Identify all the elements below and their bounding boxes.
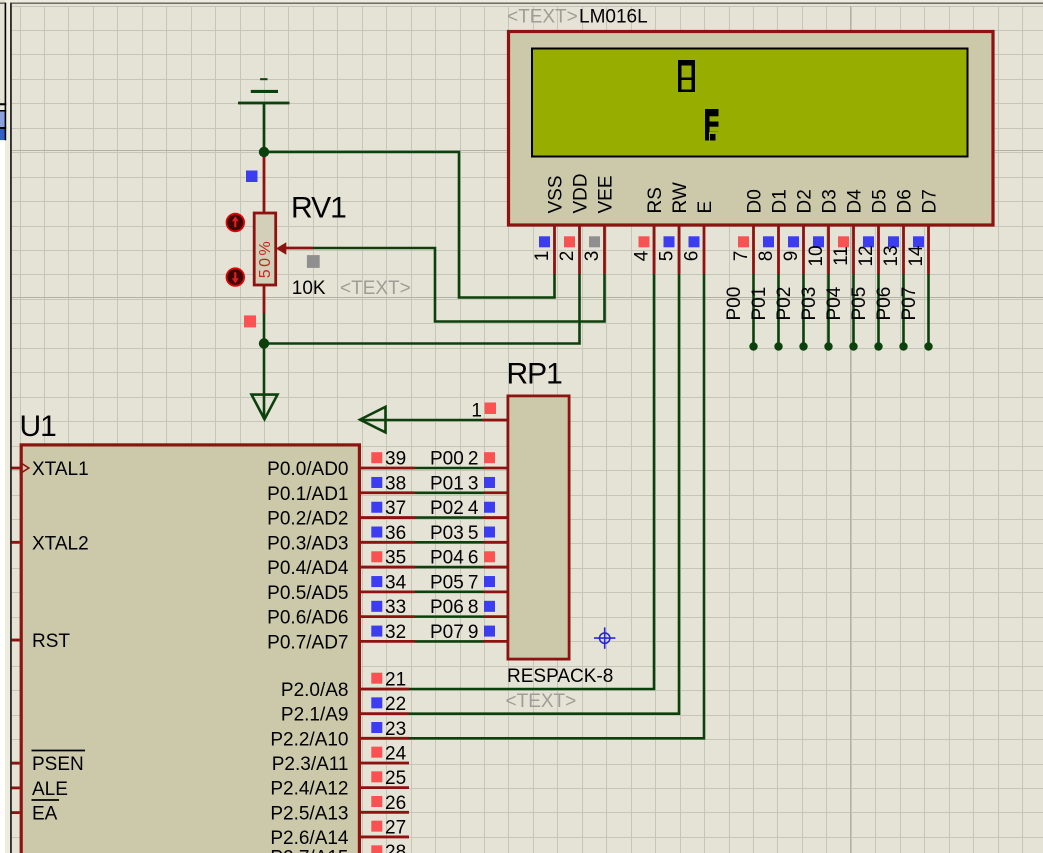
junction node at RV1 bottom	[259, 338, 269, 348]
ground symbol	[238, 78, 290, 104]
svg-text:1: 1	[471, 401, 482, 422]
svg-text:P0.6/AD6: P0.6/AD6	[267, 608, 348, 629]
wire: RP1 pin 1 to input terminal arrow	[361, 419, 483, 422]
svg-text:6: 6	[682, 251, 703, 262]
svg-text:P00: P00	[430, 449, 464, 470]
svg-text:24: 24	[385, 743, 407, 764]
LCD screen	[532, 49, 968, 157]
RV1 top pin state square (blue)	[246, 171, 258, 183]
U1 pin 38 (P0.1/AD1) with wire net P01 to RP1 pin 3	[267, 473, 506, 505]
svg-text:D6: D6	[895, 189, 916, 213]
svg-text:21: 21	[385, 670, 406, 691]
RV1 wiper arrow and stub	[276, 242, 313, 254]
LCD pin 14 (D7) stub, state square, number, name	[906, 189, 941, 274]
svg-text:3: 3	[582, 251, 603, 262]
svg-text:VSS: VSS	[546, 175, 567, 213]
LCD block character 1	[678, 60, 695, 92]
svg-text:6: 6	[468, 548, 479, 569]
LCD pin 11 (D4) stub, state square, number, name	[831, 189, 866, 274]
svg-text:4: 4	[468, 498, 479, 519]
svg-text:25: 25	[385, 768, 406, 789]
svg-text:34: 34	[385, 572, 407, 593]
svg-text:9: 9	[468, 622, 479, 643]
svg-text:D5: D5	[870, 189, 891, 213]
resistor pack RP1 body	[508, 396, 569, 659]
svg-text:33: 33	[385, 597, 406, 618]
RV1 top pin stub	[263, 157, 266, 214]
svg-text:27: 27	[385, 817, 406, 838]
svg-text:P2.6/A14: P2.6/A14	[270, 828, 349, 849]
svg-text:35: 35	[385, 548, 406, 569]
microcontroller U1 body	[21, 445, 359, 853]
U1 pin 25 (P2.4/A12)	[270, 768, 409, 800]
LCD block character 2	[705, 109, 719, 141]
svg-text:8: 8	[756, 251, 777, 262]
svg-text:36: 36	[385, 523, 406, 544]
U1 pin 32 (P0.7/AD7) with wire net P07 to RP1 pin 9	[267, 622, 506, 654]
svg-text:P0.5/AD5: P0.5/AD5	[267, 583, 348, 604]
svg-text:4: 4	[632, 250, 653, 261]
wire net P00: LCD pin 7 down to terminal dot	[724, 274, 758, 351]
svg-text:EA: EA	[32, 804, 58, 825]
left panel borders (black)	[5, 3, 7, 106]
svg-text:P03: P03	[430, 523, 464, 544]
svg-text:D0: D0	[745, 189, 766, 213]
U1 pin 22 (P2.1/A9)	[281, 274, 679, 726]
U1 pin 35 (P0.4/AD4) with wire net P04 to RP1 pin 6	[267, 548, 506, 580]
U1 pin 27 (P2.6/A14)	[270, 817, 409, 849]
RV1 decrement button	[227, 268, 245, 286]
svg-text:P07: P07	[430, 622, 464, 643]
origin marker (blue crosshair)	[594, 627, 615, 648]
svg-text:RST: RST	[32, 631, 70, 652]
svg-text:XTAL1: XTAL1	[32, 459, 89, 480]
svg-text:23: 23	[385, 719, 406, 740]
svg-text:P02: P02	[430, 498, 464, 519]
svg-text:14: 14	[906, 245, 927, 267]
wire net P07: LCD pin 14 down to terminal dot	[899, 274, 933, 351]
svg-text:XTAL2: XTAL2	[32, 533, 89, 554]
svg-text:D1: D1	[770, 189, 791, 213]
svg-text:13: 13	[881, 245, 902, 266]
svg-text:P01: P01	[749, 287, 770, 321]
svg-text:12: 12	[856, 245, 877, 266]
svg-text:P06: P06	[874, 287, 895, 321]
svg-text:E: E	[695, 201, 716, 214]
svg-text:7: 7	[468, 572, 479, 593]
svg-text:P07: P07	[899, 287, 920, 321]
wire: junction to ground terminal arrow	[263, 344, 266, 420]
wire: RV1 bottom to junction	[263, 314, 266, 344]
U1 pin 24 (P2.3/A11)	[272, 743, 409, 775]
LCD pin 13 (D6) stub, state square, number, name	[881, 189, 916, 274]
RP1 pin 1 stub, number, square	[471, 401, 506, 422]
svg-text:P01: P01	[430, 473, 464, 494]
LCD pin 9 (D2) stub, state square, number, name	[781, 189, 816, 274]
svg-text:ALE: ALE	[32, 779, 68, 800]
ground terminal arrow (down)	[252, 395, 278, 420]
svg-text:P0.1/AD1: P0.1/AD1	[267, 484, 348, 505]
wire net P05: LCD pin 12 down to terminal dot	[849, 274, 883, 351]
svg-text:50%: 50%	[257, 239, 274, 279]
LCD pin 7 (D0) stub, state square, number, name	[731, 189, 766, 274]
left scrollbar light blue	[0, 112, 5, 128]
svg-text:2: 2	[468, 449, 479, 470]
U1 left pin XTAL1	[12, 459, 89, 480]
U1 left pin EA	[12, 800, 59, 825]
svg-text:P00: P00	[724, 287, 745, 321]
svg-text:U1: U1	[20, 410, 57, 443]
LCD pin 8 (D1) stub, state square, number, name	[756, 189, 791, 274]
svg-text:38: 38	[385, 473, 406, 494]
svg-text:PSEN: PSEN	[32, 754, 84, 775]
svg-text:D2: D2	[795, 189, 816, 213]
svg-text:P0.2/AD2: P0.2/AD2	[267, 509, 348, 530]
wire net P06: LCD pin 13 down to terminal dot	[874, 274, 908, 351]
potentiometer RV1 body	[254, 213, 276, 285]
svg-text:P2.1/A9: P2.1/A9	[281, 705, 349, 726]
RV1 increment button	[227, 214, 245, 232]
LCD pin 5 (RW) stub, state square, number, name	[657, 182, 692, 274]
wire net P04: LCD pin 11 down to terminal dot	[824, 274, 858, 351]
U1 pin 28 (P2.7/A15)	[270, 842, 409, 853]
U1 pin 26 (P2.5/A13)	[270, 793, 409, 825]
svg-text:1: 1	[532, 251, 553, 262]
U1 left pin PSEN	[12, 751, 85, 776]
LCD pin 10 (D3) stub, state square, number, name	[806, 189, 841, 274]
junction node at ground/RV1 top	[259, 147, 269, 157]
svg-text:32: 32	[385, 622, 406, 643]
svg-text:9: 9	[781, 251, 802, 262]
wire net P03: LCD pin 10 down to terminal dot	[799, 274, 833, 351]
svg-text:P0.4/AD4: P0.4/AD4	[267, 558, 349, 579]
svg-text:<TEXT>: <TEXT>	[507, 7, 578, 28]
svg-text:2: 2	[557, 251, 578, 262]
RV1 bottom pin state square (red)	[244, 315, 256, 327]
svg-text:37: 37	[385, 498, 406, 519]
svg-text:<TEXT>: <TEXT>	[506, 691, 577, 712]
LCD pin 12 (D5) stub, state square, number, name	[856, 189, 891, 274]
svg-text:LM016L: LM016L	[579, 7, 648, 28]
svg-text:D3: D3	[820, 189, 841, 213]
svg-text:P03: P03	[799, 287, 820, 321]
svg-text:11: 11	[831, 246, 852, 266]
LCD pin 2 (VDD) stub, state square, number, name	[557, 173, 592, 274]
LCD pin 3 (VEE) stub, state square, number, name	[582, 175, 617, 274]
svg-text:P04: P04	[430, 548, 464, 569]
svg-text:VEE: VEE	[596, 175, 617, 213]
svg-text:P0.3/AD3: P0.3/AD3	[267, 533, 348, 554]
svg-text:P05: P05	[430, 572, 464, 593]
U1 pin 36 (P0.3/AD3) with wire net P03 to RP1 pin 5	[267, 523, 506, 555]
svg-text:10K: 10K	[292, 278, 326, 299]
U1 pin 23 (P2.2/A10)	[270, 274, 704, 750]
svg-text:VDD: VDD	[571, 173, 592, 213]
U1 pin 34 (P0.5/AD5) with wire net P05 to RP1 pin 7	[267, 572, 506, 604]
U1 left pin XTAL2	[12, 533, 89, 554]
wire net VDD: junction to LCD pin 2	[264, 274, 580, 344]
RV1 bottom pin stub	[263, 286, 266, 314]
left panel top (beige)	[0, 0, 5, 103]
svg-text:39: 39	[385, 449, 406, 470]
wire net VEE: RV1 wiper to LCD pin 3	[313, 248, 605, 322]
svg-text:P04: P04	[824, 286, 845, 320]
svg-text:5: 5	[468, 523, 479, 544]
svg-text:P2.7/A15: P2.7/A15	[270, 848, 348, 853]
svg-text:P0.7/AD7: P0.7/AD7	[267, 632, 348, 653]
left panel bottom white	[0, 140, 5, 853]
LCD pin 6 (E) stub, state square, number, name	[682, 201, 717, 274]
svg-text:P2.0/A8: P2.0/A8	[281, 680, 349, 701]
svg-text:D4: D4	[845, 189, 866, 214]
svg-text:8: 8	[468, 597, 479, 618]
svg-text:D7: D7	[920, 189, 941, 213]
svg-text:RV1: RV1	[291, 191, 346, 224]
U1 left pin ALE	[12, 779, 68, 800]
U1 pin 21 (P2.0/A8)	[281, 274, 654, 701]
U1 pin 37 (P0.2/AD2) with wire net P02 to RP1 pin 4	[267, 498, 506, 530]
wire: ground to junction	[263, 104, 266, 152]
svg-text:5: 5	[657, 251, 678, 262]
svg-text:<TEXT>: <TEXT>	[340, 278, 411, 299]
svg-text:P2.2/A10: P2.2/A10	[270, 729, 348, 750]
LCD LM016L body	[509, 32, 994, 226]
U1 pin 39 (P0.0/AD0) with wire net P00 to RP1 pin 2	[267, 449, 506, 481]
LCD pin 1 (VSS) stub, state square, number, name	[532, 175, 567, 274]
svg-text:22: 22	[385, 694, 406, 715]
svg-text:3: 3	[468, 473, 479, 494]
svg-text:RESPACK-8: RESPACK-8	[507, 666, 613, 687]
LCD pin 4 (RS) stub, state square, number, name	[632, 187, 667, 274]
wire net P02: LCD pin 9 down to terminal dot	[774, 274, 808, 351]
main edit window border (black)	[10, 3, 12, 853]
svg-text:P0.0/AD0: P0.0/AD0	[267, 459, 348, 480]
svg-text:10: 10	[806, 245, 827, 266]
svg-text:7: 7	[731, 251, 752, 262]
svg-text:P06: P06	[430, 597, 464, 618]
U1 pin 33 (P0.6/AD6) with wire net P06 to RP1 pin 8	[267, 597, 506, 629]
svg-text:RP1: RP1	[507, 358, 563, 391]
wire net P01: LCD pin 8 down to terminal dot	[749, 274, 783, 351]
svg-text:P2.5/A13: P2.5/A13	[270, 803, 348, 824]
svg-text:P2.3/A11: P2.3/A11	[272, 754, 349, 775]
wire net VSS: junction to LCD pin 1	[264, 152, 555, 298]
svg-text:P2.4/A12: P2.4/A12	[270, 779, 348, 800]
svg-text:26: 26	[385, 793, 406, 814]
RV1 wiper state square (gray)	[307, 255, 320, 268]
svg-text:RS: RS	[645, 187, 666, 213]
svg-text:P05: P05	[849, 287, 870, 321]
left scrollbar dark blue	[0, 129, 5, 140]
svg-text:28: 28	[385, 842, 406, 853]
input terminal arrow (left) at RP1 pin 1	[360, 407, 386, 433]
svg-text:RW: RW	[670, 182, 691, 213]
svg-text:P02: P02	[774, 287, 795, 321]
U1 left pin RST	[12, 631, 71, 652]
